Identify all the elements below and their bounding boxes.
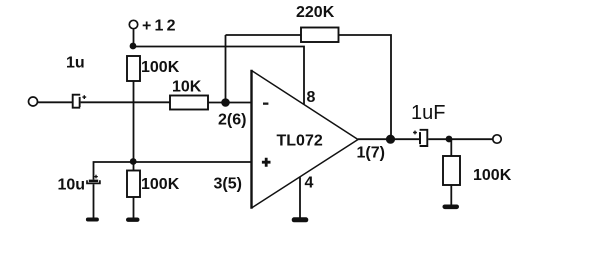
ground under R4 [126,218,140,222]
junction dot divider node [130,158,137,165]
+12 terminal [129,20,137,28]
svg-text:1u: 1u [66,55,85,72]
wire R5 to ground [450,185,452,205]
wire R1 down through input wire to divider node [133,81,135,162]
svg-text:TL072: TL072 [277,132,323,149]
svg-text:3(5): 3(5) [214,175,242,192]
feedback top wire left [226,34,302,36]
wire C2 to ground [93,184,95,218]
input terminal [29,97,38,106]
svg-text:220K: 220K [296,4,335,21]
svg-text:1uF: 1uF [411,102,445,124]
wire +12 rail to pin 8 [134,47,305,105]
wire input terminal to C1 [37,101,72,103]
wire R4 to ground [133,197,135,218]
node 1(7) junction dot [386,135,395,144]
ground under pin 4 [292,217,309,222]
svg-text:10u: 10u [58,177,86,194]
svg-text:100K: 100K [141,176,180,193]
svg-text:8: 8 [307,89,316,106]
op-amp plus sign [262,158,271,167]
feedback top wire right and drop to output [339,35,392,139]
resistor R2 10K [170,96,208,110]
resistor R4 100K (bias lower) [127,171,140,198]
svg-text:1(7): 1(7) [357,145,385,162]
resistor R5 100K (output load) [443,156,460,185]
wire R2 to op-amp inverting input [208,102,252,104]
ground under R5 [443,205,460,210]
svg-text:100K: 100K [473,167,512,184]
op-amp U1 triangle [252,70,359,209]
junction dot +12 rail [130,43,137,50]
feedback riser from node 2(6) [225,35,227,103]
wire C1 to R2 [81,101,170,103]
capacitor C1 1u [73,95,87,108]
output terminal [493,135,501,143]
capacitor C2 10u [87,175,100,184]
svg-text:10K: 10K [172,79,202,96]
pin 4 wire down [299,177,301,218]
output wire from apex [358,138,419,140]
wire +12 terminal down [133,29,135,47]
wire non-inverting row [94,162,252,180]
op-amp minus sign [263,103,268,105]
node 2(6) junction dot [221,98,230,107]
svg-text:4: 4 [305,174,314,191]
wire divider node down to R4 [133,162,135,171]
svg-text:2(6): 2(6) [218,112,246,129]
svg-text:100K: 100K [141,59,180,76]
resistor R1 100K (bias upper) [127,56,140,81]
junction dot output divider [446,136,453,143]
wire output node down to R5 [450,139,452,156]
svg-text:+12: +12 [142,18,179,35]
ground under C2 [86,218,99,222]
wire C3 to output terminal [428,138,493,140]
capacitor C3 1uF [413,130,427,146]
resistor R3 220K [301,28,339,43]
